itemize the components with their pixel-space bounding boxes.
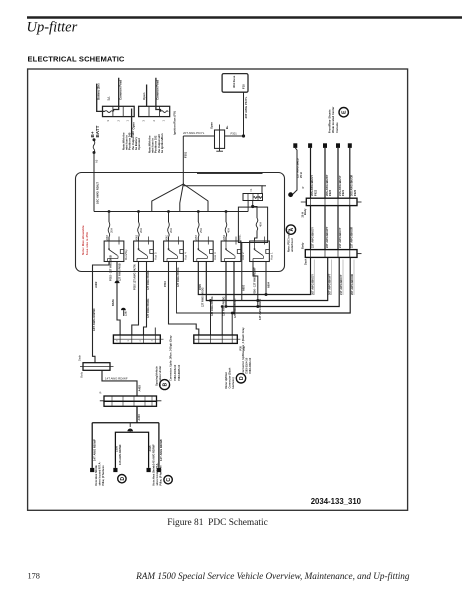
svg-text:A963: A963 bbox=[135, 234, 138, 240]
svg-text:D: D bbox=[239, 376, 245, 380]
svg-text:Connector_Upfitter Aux_4 (Dash: Connector_Upfitter Aux_4 (Dash Gray bbox=[241, 327, 245, 374]
svg-text:178: 178 bbox=[28, 572, 40, 581]
wire open F1 bbox=[131, 109, 133, 138]
harness trunk bbox=[136, 406, 138, 422]
svg-text:40A: 40A bbox=[227, 228, 231, 233]
wire common feed F2 bbox=[156, 78, 161, 112]
svg-text:IP: IP bbox=[301, 186, 305, 189]
svg-text:IP: IP bbox=[100, 391, 103, 394]
fusible link bbox=[93, 138, 96, 141]
svg-text:E: E bbox=[342, 110, 348, 114]
wire feed to diode bbox=[183, 135, 214, 137]
svg-text:Aux 3: Aux 3 bbox=[213, 252, 217, 260]
svg-text:20S AWG BK/OR: 20S AWG BK/OR bbox=[350, 175, 354, 196]
svg-text:Dash: Dash bbox=[303, 258, 307, 265]
wires rails down to connector B2 bbox=[210, 301, 212, 336]
svg-text:D: D bbox=[120, 477, 126, 481]
svg-text:ELECTRICAL SCHEMATIC: ELECTRICAL SCHEMATIC bbox=[28, 55, 125, 64]
junction dot P301 bbox=[242, 134, 245, 137]
harness spread bbox=[92, 422, 159, 424]
fuse 20A column 3 bbox=[167, 210, 170, 213]
svg-text:F923: F923 bbox=[328, 189, 332, 196]
svg-text:A957: A957 bbox=[195, 234, 198, 240]
svg-text:P303 12T AWG PK/TN: P303 12T AWG PK/TN bbox=[134, 264, 137, 290]
wire battery B+ bbox=[97, 84, 105, 112]
wire common feed F1 bbox=[114, 78, 119, 112]
svg-text:Pillar, (P harness: Pillar, (P harness bbox=[159, 465, 162, 486]
wire relay3 pins bbox=[169, 262, 199, 336]
svg-text:BATT: BATT bbox=[95, 125, 100, 137]
svg-text:40A: 40A bbox=[259, 222, 263, 227]
svg-text:Body: Body bbox=[303, 208, 307, 215]
svg-text:25 H: 25 H bbox=[299, 172, 303, 178]
svg-text:Dash: Dash bbox=[77, 354, 81, 361]
svg-text:Aux 5: Aux 5 bbox=[153, 252, 157, 260]
wire down to fan node bbox=[182, 136, 184, 184]
svg-text:20S AWG BK/GY: 20S AWG BK/GY bbox=[310, 175, 314, 196]
circled E bbox=[339, 108, 348, 117]
inline connector bar A bbox=[113, 335, 160, 343]
svg-text:None Upfitter: None Upfitter bbox=[224, 372, 228, 388]
svg-text:Crossbox Under: Crossbox Under bbox=[158, 366, 162, 386]
svg-text:12T AWG PK/OG: 12T AWG PK/OG bbox=[211, 296, 214, 316]
svg-text:14S AWG RD/WF: 14S AWG RD/WF bbox=[118, 444, 122, 465]
svg-text:12T AWG PK/OG: 12T AWG PK/OG bbox=[177, 267, 180, 287]
wire diode to junction bbox=[225, 135, 244, 137]
wire along PDC edge to aux connector bbox=[197, 172, 263, 174]
wire to main bar bbox=[102, 370, 137, 396]
splice arrow Z907 bbox=[115, 281, 120, 284]
svg-text:22T AWG BK/OR: 22T AWG BK/OR bbox=[350, 227, 354, 248]
svg-text:14T AWG RD/WF: 14T AWG RD/WF bbox=[105, 376, 128, 380]
relay Run/Sty bbox=[104, 241, 124, 262]
svg-text:Open: Open bbox=[210, 122, 214, 129]
svg-text:14T AWG RD/WF: 14T AWG RD/WF bbox=[92, 308, 96, 331]
svg-text:20A: 20A bbox=[169, 228, 173, 233]
svg-text:A403: A403 bbox=[137, 385, 141, 392]
inline connector dash/body bbox=[83, 363, 110, 371]
svg-text:P304: P304 bbox=[164, 281, 167, 287]
svg-text:20T AWG BK/WT: 20T AWG BK/WT bbox=[328, 273, 332, 295]
svg-text:be Ignition/Run: be Ignition/Run bbox=[160, 133, 164, 153]
circled C note bbox=[164, 476, 172, 484]
fuse 40A column 5 bbox=[225, 210, 228, 213]
svg-text:A904: A904 bbox=[267, 281, 270, 288]
svg-text:21T AWG BK/VT: 21T AWG BK/VT bbox=[339, 274, 343, 295]
svg-text:underhood: underhood bbox=[290, 238, 294, 252]
svg-text:7283-8935-10: 7283-8935-10 bbox=[177, 364, 181, 381]
svg-text:F10: F10 bbox=[241, 84, 245, 89]
wire open F2 bbox=[146, 85, 148, 107]
circled B connector note bbox=[160, 380, 170, 390]
wires C1 to C2 bbox=[310, 206, 312, 250]
fuse holder F1 (battery feed) bbox=[103, 106, 135, 116]
svg-text:A402: A402 bbox=[94, 281, 98, 288]
circled A bbox=[286, 225, 295, 234]
relay Aux 4 bbox=[164, 241, 184, 262]
inline connector C2 (Body/Dash) bbox=[305, 250, 357, 258]
svg-text:Front/Rear Shunts: Front/Rear Shunts bbox=[328, 109, 332, 133]
svg-text:22T AWG BK/WT: 22T AWG BK/WT bbox=[325, 226, 329, 248]
wire F10 down bbox=[243, 92, 245, 136]
svg-text:Ignition/Run (F9): Ignition/Run (F9) bbox=[173, 111, 177, 135]
svg-text:Pillar, (P harness: Pillar, (P harness bbox=[102, 465, 105, 486]
svg-text:21T AWG BK/VT: 21T AWG BK/VT bbox=[338, 227, 342, 248]
svg-text:Body: Body bbox=[79, 371, 83, 378]
bus bar B+ bbox=[94, 211, 248, 213]
svg-text:20S AWG BK/WT: 20S AWG BK/WT bbox=[325, 174, 329, 196]
relay Aux 1 bbox=[250, 241, 270, 262]
svg-text:20T AWG PK/YL: 20T AWG PK/YL bbox=[244, 96, 248, 118]
svg-text:P306 - 12T AWG RD/WF: P306 - 12T AWG RD/WF bbox=[253, 267, 256, 295]
svg-text:Common Feed: Common Feed bbox=[156, 80, 160, 100]
relay Aux 5 bbox=[134, 241, 154, 262]
svg-text:12T AWG PK/BG: 12T AWG PK/BG bbox=[223, 296, 226, 316]
svg-text:12T AWG PK/WT: 12T AWG PK/WT bbox=[234, 298, 237, 318]
svg-text:Figure 81 PDC Schematic: Figure 81 PDC Schematic bbox=[167, 518, 268, 528]
svg-text:14S AWG RD/WF: 14S AWG RD/WF bbox=[151, 444, 155, 465]
svg-text:Aux 1: Aux 1 bbox=[269, 252, 273, 260]
svg-text:Z315: Z315 bbox=[148, 445, 152, 451]
svg-text:14T AWG RD/WF: 14T AWG RD/WF bbox=[159, 439, 163, 461]
svg-text:20A: 20A bbox=[110, 228, 114, 233]
inline connector bar B bbox=[194, 335, 238, 343]
svg-text:20A: 20A bbox=[139, 228, 143, 233]
svg-text:fuse size is 25A: fuse size is 25A bbox=[85, 231, 89, 255]
svg-text:B: B bbox=[163, 382, 169, 386]
wire sub-box output down bbox=[241, 243, 243, 301]
output terminals bbox=[90, 468, 94, 472]
svg-text:Connector (Dash: Connector (Dash bbox=[228, 367, 232, 388]
shield wire to ring terminal bbox=[293, 148, 298, 195]
fuse 20A column 2 bbox=[137, 210, 140, 213]
svg-text:Weak located Center: Weak located Center bbox=[331, 107, 335, 133]
fan node wires bbox=[152, 184, 184, 212]
diode D1 bbox=[215, 130, 225, 148]
main inline connector (body) bbox=[104, 396, 157, 401]
junction dot aux bbox=[247, 201, 249, 212]
aux fuse connector bbox=[243, 194, 263, 201]
svg-text:F921: F921 bbox=[341, 189, 345, 196]
fuse 20A column 1 bbox=[108, 210, 111, 213]
relay Aux 3 bbox=[193, 241, 213, 262]
svg-text:Body: Body bbox=[301, 242, 305, 249]
svg-text:20T AWG BK/OR: 20T AWG BK/OR bbox=[350, 274, 354, 295]
relay Aux 2 bbox=[221, 241, 241, 262]
inner pair bbox=[115, 432, 148, 468]
svg-text:Spacing/Vehicle: Spacing/Vehicle bbox=[155, 366, 159, 386]
svg-text:Operated: Operated bbox=[137, 138, 141, 150]
wire relay2 pins bbox=[132, 262, 139, 336]
shunt wires down bbox=[310, 148, 312, 198]
svg-text:12T AWG RD/WF: 12T AWG RD/WF bbox=[258, 298, 262, 320]
svg-text:RAM 1500 Special Service Vehic: RAM 1500 Special Service Vehicle Overvie… bbox=[135, 571, 410, 581]
svg-text:14T AWG RD/WF: 14T AWG RD/WF bbox=[92, 439, 96, 461]
fuse holder F2 (ignition feed) bbox=[139, 106, 170, 116]
circled D note bbox=[118, 475, 126, 483]
svg-text:Common Feed: Common Feed bbox=[118, 80, 122, 100]
svg-text:Z307: Z307 bbox=[125, 310, 128, 316]
svg-text:A961: A961 bbox=[165, 234, 168, 240]
wire battery feed down bbox=[93, 153, 95, 212]
svg-text:22T AWG BK/GY: 22T AWG BK/GY bbox=[310, 227, 314, 248]
wire relay6 left pin to splice rails bbox=[253, 262, 258, 307]
svg-text:Up-fitter: Up-fitter bbox=[27, 20, 78, 36]
svg-text:Connector_Upftr_3Run_3-Digit (: Connector_Upftr_3Run_3-Digit (Gray bbox=[168, 335, 172, 381]
svg-text:2034-133_310: 2034-133_310 bbox=[311, 497, 362, 506]
splice arrow Z305 bbox=[129, 423, 131, 427]
fuse box F10 bbox=[222, 74, 248, 93]
aux fuse sub-box bbox=[238, 207, 267, 242]
svg-text:A951: A951 bbox=[239, 234, 242, 240]
svg-text:20T AWG PK/YL: 20T AWG PK/YL bbox=[183, 131, 205, 135]
svg-text:25A: 25A bbox=[199, 228, 203, 233]
svg-text:12T AWG PK/OG: 12T AWG PK/OG bbox=[202, 287, 205, 307]
svg-text:C: C bbox=[166, 478, 172, 482]
svg-text:A5: A5 bbox=[95, 159, 99, 163]
svg-text:BA8A: BA8A bbox=[112, 299, 115, 306]
svg-text:Aux 4: Aux 4 bbox=[183, 252, 187, 260]
svg-text:P302 - 12T AWG BK/B: P302 - 12T AWG BK/B bbox=[110, 255, 113, 281]
svg-text:20T AWG BK/GY: 20T AWG BK/GY bbox=[310, 274, 314, 295]
svg-text:Z305: Z305 bbox=[115, 446, 119, 452]
svg-text:12T AWG PK/B: 12T AWG PK/B bbox=[118, 263, 121, 281]
svg-text:A903: A903 bbox=[243, 284, 246, 291]
wire relay1 left pin A402 bbox=[93, 262, 110, 363]
header rule bbox=[27, 16, 462, 19]
svg-text:A953: A953 bbox=[223, 234, 226, 240]
svg-text:7283-3108-10: 7283-3108-10 bbox=[173, 364, 177, 381]
svg-text:Harness): Harness) bbox=[231, 377, 235, 388]
splice rails to IP connectors bbox=[198, 257, 310, 294]
svg-text:Open: Open bbox=[131, 122, 135, 130]
fuse 25A column 4 bbox=[197, 210, 200, 213]
wire fan to aux connector bbox=[183, 186, 262, 194]
svg-text:B+: B+ bbox=[225, 125, 229, 129]
inline connector C1 (IP/Body) bbox=[301, 201, 307, 203]
svg-text:12T AWG PK/DG: 12T AWG PK/DG bbox=[147, 270, 150, 290]
wire relay6 right pin to rail1 bbox=[265, 262, 267, 295]
svg-text:7283-4994-10: 7283-4994-10 bbox=[248, 357, 252, 374]
shunt terminals bbox=[293, 143, 297, 148]
svg-text:F922: F922 bbox=[314, 189, 318, 196]
svg-text:Console: Console bbox=[335, 122, 339, 133]
circled D connector note bbox=[236, 374, 245, 383]
schematic frame bbox=[28, 69, 408, 510]
svg-text:21S AWG BK/VT: 21S AWG BK/VT bbox=[338, 175, 342, 196]
svg-text:A403: A403 bbox=[137, 414, 141, 421]
svg-text:P301: P301 bbox=[231, 132, 238, 136]
svg-text:10C AWG RD/LT: 10C AWG RD/LT bbox=[95, 182, 99, 204]
svg-text:Battery (B+): Battery (B+) bbox=[97, 83, 101, 100]
wire relay1 right pin bbox=[117, 262, 120, 336]
svg-text:Open: Open bbox=[142, 92, 146, 100]
PDC enclosure bbox=[76, 173, 285, 272]
svg-text:Note: PDC located: Note: PDC located bbox=[286, 229, 290, 252]
svg-text:A967: A967 bbox=[106, 234, 109, 240]
svg-text:12T AWG PK/DG: 12T AWG PK/DG bbox=[147, 298, 150, 318]
svg-text:Run/Sty: Run/Sty bbox=[124, 249, 128, 260]
svg-text:F920: F920 bbox=[353, 189, 357, 196]
svg-text:F301: F301 bbox=[184, 151, 188, 158]
svg-text:40A Fuse: 40A Fuse bbox=[232, 75, 236, 88]
svg-text:22T AWG SHLD: 22T AWG SHLD bbox=[296, 158, 300, 178]
